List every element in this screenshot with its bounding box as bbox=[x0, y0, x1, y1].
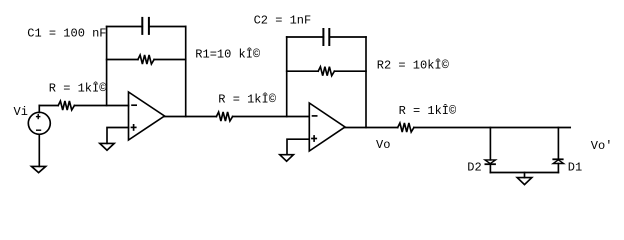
wire resistor R2 branch right bbox=[334, 70, 366, 72]
wire resistor R1 branch right bbox=[154, 59, 186, 61]
resistor R (stage 2 input) bbox=[216, 112, 232, 121]
resistor R1 bbox=[138, 55, 154, 64]
wire feedback right vertical (stage 1) bbox=[185, 27, 187, 117]
diode D2 bbox=[485, 160, 496, 164]
wire D2 branch top bbox=[489, 128, 491, 160]
wire feedback left vertical (stage 2) bbox=[286, 37, 288, 117]
wire D1 branch bottom bbox=[557, 164, 559, 173]
wire feedback right vertical (stage 2) bbox=[365, 37, 367, 128]
wire resistor R2 branch left bbox=[287, 70, 319, 72]
capacitor C1 bbox=[142, 17, 149, 35]
resistor R (output) bbox=[398, 123, 414, 132]
svg-text:C1 = 100 nF: C1 = 100 nF bbox=[27, 27, 106, 41]
svg-text:Vo: Vo bbox=[376, 138, 390, 152]
capacitor C2 bbox=[323, 28, 329, 46]
wire source top stub bbox=[38, 106, 40, 113]
wire op-amp U1 noninverting input to ground bbox=[107, 128, 129, 144]
wire feedback left vertical (stage 1) bbox=[106, 27, 108, 106]
diode D1 bbox=[552, 159, 563, 163]
svg-text:C2 = 1nF: C2 = 1nF bbox=[254, 14, 312, 28]
resistor R (stage 1 input) bbox=[58, 101, 74, 110]
wire D1 branch top bbox=[557, 128, 559, 160]
wire output node bbox=[414, 127, 570, 129]
wire capacitor branch left (stage 1) bbox=[107, 26, 143, 28]
svg-text:R = 1kÎ©: R = 1kÎ© bbox=[49, 81, 107, 96]
wire resistor R1 branch left bbox=[107, 59, 138, 61]
svg-text:Vo': Vo' bbox=[591, 139, 613, 153]
ground (source) bbox=[32, 166, 46, 172]
resistor R2 bbox=[318, 67, 334, 76]
op-amp U1 bbox=[129, 92, 165, 140]
wire capacitor branch right (stage 1) bbox=[149, 26, 186, 28]
svg-text:R2 = 10kÎ©: R2 = 10kÎ© bbox=[377, 58, 450, 73]
wire U2 output bbox=[345, 127, 398, 129]
wire D2 branch bottom bbox=[489, 164, 491, 172]
wire resistor to op-amp inverting input bbox=[74, 105, 128, 107]
wire U1 output to stage 2 resistor bbox=[165, 116, 217, 118]
svg-text:R = 1kÎ©: R = 1kÎ© bbox=[218, 92, 276, 107]
wire limiter bottom bbox=[490, 172, 558, 174]
voltage source Vi bbox=[28, 112, 50, 134]
svg-text:D1: D1 bbox=[568, 161, 582, 175]
wire ground stub (limiter) bbox=[524, 173, 526, 178]
wire source to ground bbox=[38, 134, 40, 166]
wire resistor to U2 inverting input bbox=[233, 116, 309, 118]
svg-text:R1=10 kÎ©: R1=10 kÎ© bbox=[195, 47, 261, 62]
wire U2 noninverting input to ground bbox=[287, 139, 309, 155]
op-amp U2 bbox=[309, 103, 345, 151]
ground (limiter) bbox=[517, 178, 532, 185]
ground (U1 noninverting) bbox=[100, 143, 114, 150]
svg-text:R = 1kÎ©: R = 1kÎ© bbox=[399, 103, 457, 118]
wire capacitor branch left (stage 2) bbox=[287, 36, 324, 38]
svg-text:D2: D2 bbox=[467, 161, 481, 175]
svg-text:Vi: Vi bbox=[14, 105, 28, 119]
wire source to resistor R bbox=[39, 105, 58, 107]
wire capacitor branch right (stage 2) bbox=[329, 36, 366, 38]
ground (U2 noninverting) bbox=[280, 155, 294, 162]
